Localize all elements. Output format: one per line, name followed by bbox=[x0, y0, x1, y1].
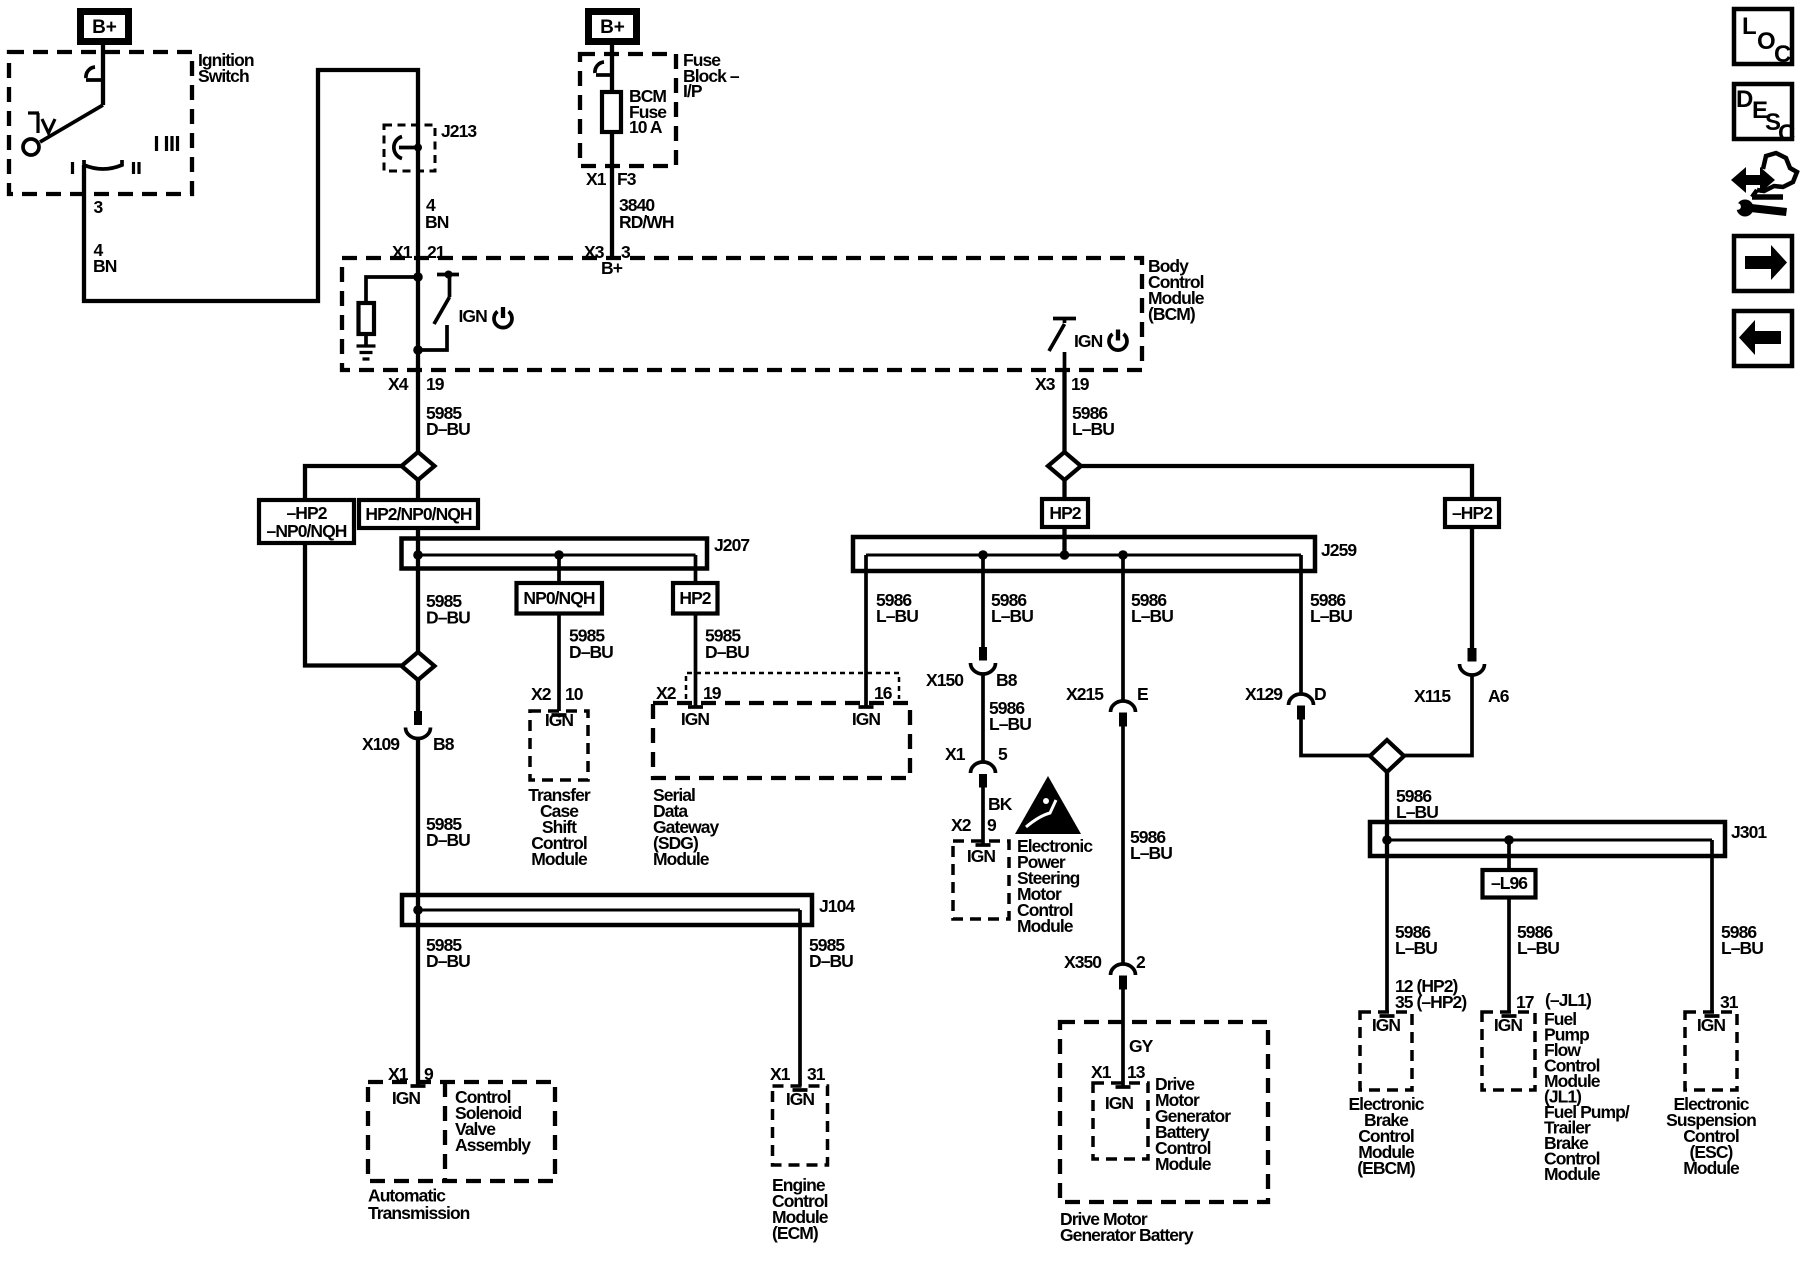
svg-text:IGN: IGN bbox=[545, 710, 574, 730]
option box HP2 (J259) bbox=[1042, 499, 1088, 527]
wire splice branch to -HP2 option box bbox=[305, 466, 402, 500]
connector X109 pin bbox=[414, 711, 422, 725]
wire HP2 box to SDG module bbox=[694, 614, 698, 707]
svg-text:IGN: IGN bbox=[459, 306, 488, 326]
BCM IGN switch (left) top contact bbox=[437, 273, 459, 277]
svg-text:I/P: I/P bbox=[683, 81, 703, 101]
svg-text:3: 3 bbox=[94, 197, 104, 217]
svg-text:IGN: IGN bbox=[852, 709, 881, 729]
svg-text:31: 31 bbox=[1720, 992, 1739, 1012]
svg-text:X2: X2 bbox=[656, 683, 677, 703]
Body Control Module dashed box bbox=[342, 258, 1142, 370]
forward arrow icon box bbox=[1734, 236, 1792, 291]
ground in BCM bbox=[357, 346, 376, 359]
svg-text:Transmission: Transmission bbox=[368, 1203, 470, 1223]
ESC pin terminator bbox=[1705, 1014, 1720, 1018]
svg-text:5: 5 bbox=[998, 744, 1008, 764]
svg-text:J301: J301 bbox=[1731, 822, 1767, 842]
BCM internal wire X1-21 to X4-19 bbox=[416, 258, 420, 370]
svg-text:Generator Battery: Generator Battery bbox=[1060, 1225, 1194, 1245]
wire through J213 to BCM X1-21 bbox=[416, 125, 420, 258]
key position marks I and II at arc bbox=[73, 162, 140, 174]
svg-text:(ECM): (ECM) bbox=[772, 1223, 818, 1243]
back arrow icon box bbox=[1734, 311, 1792, 366]
BCM IGN switch (left) lower contact bbox=[418, 325, 447, 350]
svg-text:L–BU: L–BU bbox=[876, 606, 918, 626]
in-line connector J213 dashed box bbox=[384, 125, 435, 171]
svg-text:Module: Module bbox=[1155, 1154, 1212, 1174]
splice diamond S2 bbox=[402, 652, 435, 680]
wire X129 to splice S4 bbox=[1301, 720, 1370, 756]
svg-text:A6: A6 bbox=[1488, 686, 1510, 706]
power symbol (BCM right) bbox=[1109, 334, 1127, 350]
splice diamond S1 bbox=[402, 452, 435, 480]
svg-text:HP2/NP0/NQH: HP2/NP0/NQH bbox=[365, 504, 472, 524]
svg-text:B+: B+ bbox=[92, 17, 117, 38]
SDG pin 19 terminator bbox=[688, 705, 703, 709]
connector X115 cup bbox=[1460, 664, 1485, 675]
ignition switch blade bbox=[40, 105, 103, 142]
svg-text:IGN: IGN bbox=[1372, 1015, 1401, 1035]
svg-text:L–BU: L–BU bbox=[991, 606, 1033, 626]
svg-text:X109: X109 bbox=[362, 734, 400, 754]
svg-text:BK: BK bbox=[988, 794, 1013, 814]
EPS IGN dashed box bbox=[953, 841, 1009, 919]
wire X115 to splice S4 bbox=[1404, 676, 1472, 756]
wire X1-5 to EPS module bbox=[981, 788, 985, 846]
svg-text:D–BU: D–BU bbox=[569, 642, 613, 662]
svg-text:B+: B+ bbox=[600, 17, 625, 38]
ECM IGN dashed box bbox=[773, 1086, 828, 1165]
option box -L96 bbox=[1483, 870, 1536, 898]
connector X1-5 pin bbox=[979, 774, 987, 788]
wire J207 to NP0/NQH box bbox=[557, 569, 561, 584]
wire X350 to DMGB module bbox=[1121, 990, 1125, 1088]
wire -HP2 to X115 bbox=[1470, 527, 1474, 648]
option box -HP2 -NP0/NQH bbox=[259, 500, 354, 543]
connector X129 cap bbox=[1289, 694, 1314, 705]
svg-text:IGN: IGN bbox=[1697, 1015, 1726, 1035]
svg-text:B8: B8 bbox=[433, 734, 455, 754]
svg-text:X1: X1 bbox=[770, 1064, 791, 1084]
ignition switch pivot bbox=[23, 139, 39, 155]
wire S2 to X109 bbox=[416, 680, 420, 711]
wire NP0/NQH to transfer case module bbox=[557, 614, 561, 712]
svg-text:L–BU: L–BU bbox=[989, 714, 1031, 734]
wire BCM X3 to splice S3 bbox=[1062, 370, 1066, 452]
svg-text:(BCM): (BCM) bbox=[1148, 304, 1195, 324]
connector X215 cap bbox=[1111, 701, 1136, 712]
svg-text:J207: J207 bbox=[714, 535, 749, 555]
direction/repair icon bbox=[1731, 167, 1775, 193]
connector X150 cup bbox=[971, 663, 996, 674]
wire BCM X4 to splice bbox=[416, 370, 420, 452]
SDG X2 connector fine dashed boundary bbox=[686, 673, 899, 699]
wire B+ into fuse bbox=[610, 45, 614, 92]
svg-text:35 (–HP2): 35 (–HP2) bbox=[1395, 992, 1466, 1012]
svg-text:L–BU: L–BU bbox=[1721, 938, 1763, 958]
connector X215 pin bbox=[1119, 713, 1127, 727]
svg-text:L–BU: L–BU bbox=[1130, 843, 1172, 863]
connector X115 pin bbox=[1468, 648, 1477, 662]
svg-text:B8: B8 bbox=[996, 670, 1018, 690]
svg-text:D–BU: D–BU bbox=[809, 951, 853, 971]
svg-text:L–BU: L–BU bbox=[1395, 938, 1437, 958]
DMGB pin terminator bbox=[1116, 1085, 1131, 1089]
wire J301 to EBCM bbox=[1385, 856, 1389, 1012]
connector X1-5 cap bbox=[971, 762, 996, 773]
svg-text:L–BU: L–BU bbox=[1131, 606, 1173, 626]
svg-text:Module: Module bbox=[1544, 1164, 1601, 1184]
svg-text:3: 3 bbox=[621, 242, 631, 262]
transmission pin terminator bbox=[411, 1084, 426, 1088]
svg-text:16: 16 bbox=[874, 683, 893, 703]
svg-text:X3: X3 bbox=[1035, 374, 1056, 394]
svg-text:D: D bbox=[1736, 86, 1753, 113]
svg-text:(–JL1): (–JL1) bbox=[1545, 990, 1591, 1010]
J104 internal bus bbox=[418, 909, 801, 912]
drive motor generator battery dashed box bbox=[1060, 1022, 1268, 1202]
option box -HP2 bbox=[1445, 499, 1499, 527]
svg-text:X115: X115 bbox=[1414, 686, 1451, 706]
svg-text:IGN: IGN bbox=[1105, 1093, 1134, 1113]
svg-text:X1: X1 bbox=[1091, 1062, 1112, 1082]
svg-text:9: 9 bbox=[987, 815, 997, 835]
wire -HP2 option to splice S2 bbox=[305, 543, 402, 666]
svg-text:HP2: HP2 bbox=[1049, 503, 1081, 523]
key position IV mark bbox=[28, 113, 39, 133]
svg-text:F3: F3 bbox=[617, 169, 637, 189]
svg-text:Module: Module bbox=[1683, 1158, 1740, 1178]
wire S4 to J301 bbox=[1385, 772, 1389, 822]
svg-text:BN: BN bbox=[93, 256, 117, 276]
wire X109 to J104 bbox=[416, 738, 420, 895]
svg-text:HP2: HP2 bbox=[679, 588, 711, 608]
fuel pump IGN dashed box bbox=[1482, 1012, 1535, 1090]
option box HP2 bbox=[673, 583, 718, 614]
svg-text:19: 19 bbox=[1071, 374, 1090, 394]
svg-text:RD/WH: RD/WH bbox=[619, 212, 674, 232]
svg-text:L–BU: L–BU bbox=[1517, 938, 1559, 958]
connector X350 pin bbox=[1119, 976, 1127, 990]
splice diamond S3 bbox=[1048, 452, 1081, 480]
wire option box to J207 bbox=[416, 528, 420, 539]
svg-text:X350: X350 bbox=[1064, 952, 1102, 972]
svg-text:L–BU: L–BU bbox=[1072, 419, 1114, 439]
EBCM pin terminator bbox=[1380, 1014, 1395, 1018]
svg-text:–NP0/NQH: –NP0/NQH bbox=[267, 521, 347, 541]
svg-text:(EBCM): (EBCM) bbox=[1357, 1158, 1415, 1178]
DMGB control module IGN dashed box bbox=[1093, 1083, 1148, 1159]
svg-text:J213: J213 bbox=[441, 121, 477, 141]
transfer case pin terminator bbox=[552, 713, 567, 717]
option box NP0/NQH bbox=[517, 583, 603, 614]
splice pack J104 bar bbox=[402, 895, 812, 925]
connector X350 cap bbox=[1111, 964, 1136, 975]
svg-text:Assembly: Assembly bbox=[455, 1135, 531, 1155]
svg-text:J259: J259 bbox=[1321, 540, 1357, 560]
wire HP2 box to J259 bbox=[1062, 527, 1066, 537]
svg-text:–L96: –L96 bbox=[1491, 873, 1528, 893]
svg-text:Module: Module bbox=[1017, 916, 1074, 936]
connector X150 pin bbox=[979, 647, 987, 661]
svg-text:Module: Module bbox=[653, 849, 710, 869]
svg-text:GY: GY bbox=[1129, 1036, 1154, 1056]
option box HP2/NP0/NQH bbox=[359, 500, 478, 528]
connector X109 cup bbox=[406, 728, 431, 739]
ESC IGN dashed box bbox=[1685, 1012, 1737, 1090]
svg-text:E: E bbox=[1137, 684, 1148, 704]
J207 internal bus bbox=[418, 554, 696, 557]
wire J259 to X129 bbox=[1299, 571, 1303, 694]
svg-text:–HP2: –HP2 bbox=[287, 503, 328, 523]
svg-text:X2: X2 bbox=[951, 815, 972, 835]
transfer case IGN dashed box bbox=[530, 711, 588, 780]
svg-text:O: O bbox=[1757, 28, 1776, 55]
wire X215 to X350 bbox=[1121, 727, 1125, 964]
svg-text:17: 17 bbox=[1516, 992, 1534, 1012]
wire J301 to ESC module bbox=[1710, 856, 1714, 1012]
wire J259 to X215 bbox=[1121, 571, 1125, 701]
junction at J213 bbox=[414, 144, 422, 152]
svg-text:10: 10 bbox=[565, 684, 584, 704]
wire J104 to automatic transmission bbox=[416, 925, 420, 1086]
J301 internal bus bbox=[1387, 839, 1712, 842]
splice pack J207 bar bbox=[402, 539, 708, 569]
svg-text:IGN: IGN bbox=[681, 709, 710, 729]
svg-text:L: L bbox=[1742, 13, 1757, 40]
svg-text:Module: Module bbox=[531, 849, 588, 869]
BCM IGN switch (right) lower contact bbox=[1063, 352, 1067, 370]
svg-text:D–BU: D–BU bbox=[426, 608, 470, 628]
svg-text:Switch: Switch bbox=[198, 66, 249, 86]
svg-text:IGN: IGN bbox=[786, 1089, 815, 1109]
svg-text:–HP2: –HP2 bbox=[1452, 503, 1493, 523]
svg-text:L–BU: L–BU bbox=[1396, 802, 1438, 822]
EPS pin terminator bbox=[976, 843, 991, 847]
splice pack J259 bar bbox=[853, 537, 1315, 571]
SDG module dashed box bbox=[653, 703, 910, 778]
svg-text:J104: J104 bbox=[819, 896, 855, 916]
fuel pump pin terminator bbox=[1502, 1014, 1517, 1018]
wire J259 to X150 bbox=[981, 571, 985, 647]
ignition switch module dashed box bbox=[9, 52, 192, 194]
svg-text:D–BU: D–BU bbox=[426, 419, 470, 439]
power symbol (BCM left) bbox=[494, 312, 512, 328]
EPS warning triangle bbox=[1015, 776, 1081, 834]
svg-text:X2: X2 bbox=[531, 684, 552, 704]
svg-text:X1: X1 bbox=[586, 169, 607, 189]
wire J207 to splice S2 bbox=[416, 569, 420, 653]
wire resistor to ground bbox=[364, 334, 368, 346]
power feed B+ terminal box (fuse block) bbox=[585, 8, 640, 45]
wire B+ to ignition switch contact bbox=[101, 45, 105, 105]
automatic transmission dashed box bbox=[368, 1082, 555, 1181]
SDG pin 16 terminator bbox=[859, 705, 874, 709]
svg-text:NP0/NQH: NP0/NQH bbox=[523, 588, 594, 608]
svg-text:X1: X1 bbox=[945, 744, 966, 764]
ECM pin terminator bbox=[793, 1088, 808, 1092]
svg-text:X129: X129 bbox=[1245, 684, 1283, 704]
svg-text:X4: X4 bbox=[388, 374, 409, 394]
svg-text:IGN: IGN bbox=[967, 846, 996, 866]
svg-text:D–BU: D–BU bbox=[426, 830, 470, 850]
svg-text:19: 19 bbox=[703, 683, 722, 703]
wire S3 to HP2 option box bbox=[1062, 480, 1066, 499]
resistor in BCM bbox=[359, 303, 375, 334]
svg-text:13: 13 bbox=[1127, 1062, 1146, 1082]
svg-text:C: C bbox=[1774, 41, 1791, 68]
fuse block dashed box bbox=[580, 54, 676, 166]
svg-text:IGN: IGN bbox=[1494, 1015, 1523, 1035]
key position marks I III bbox=[157, 136, 178, 151]
wire fuse to BCM X3-3 bbox=[610, 132, 614, 258]
junction in BCM bbox=[413, 272, 423, 282]
LOC icon box bbox=[1734, 9, 1792, 64]
svg-text:D: D bbox=[1314, 684, 1326, 704]
svg-text:D–BU: D–BU bbox=[426, 951, 470, 971]
svg-text:19: 19 bbox=[426, 374, 445, 394]
EBCM IGN dashed box bbox=[1360, 1012, 1412, 1090]
svg-text:B+: B+ bbox=[601, 258, 623, 278]
svg-text:IGN: IGN bbox=[392, 1088, 421, 1108]
power feed B+ terminal box (left) bbox=[77, 8, 132, 45]
wire splice S1 to option box HP2/NP0/NQH bbox=[416, 480, 420, 500]
wire -L96 to fuel pump module bbox=[1507, 898, 1511, 1013]
wire S3 to -HP2 option box bbox=[1081, 466, 1472, 499]
BCM IGN switch (left) blade bbox=[434, 297, 450, 324]
ignition switch contact arc I-II bbox=[84, 160, 122, 169]
svg-text:C: C bbox=[1778, 120, 1795, 147]
splice pack J301 bar bbox=[1370, 822, 1725, 856]
DESC icon box bbox=[1734, 84, 1792, 139]
svg-text:10 A: 10 A bbox=[629, 117, 663, 137]
wire J104 to ECM bbox=[798, 925, 802, 1086]
fuse F3 BCM Fuse 10A bbox=[602, 92, 621, 132]
svg-text:IGN: IGN bbox=[1074, 331, 1103, 351]
BCM IGN switch (right) top contact bbox=[1053, 317, 1076, 321]
svg-text:BN: BN bbox=[425, 212, 449, 232]
svg-text:D–BU: D–BU bbox=[705, 642, 749, 662]
BCM internal branch to resistor bbox=[366, 277, 418, 303]
ignition switch B+ terminal tick and hook bbox=[86, 78, 103, 82]
J259 internal bus bbox=[866, 554, 1301, 557]
wire J207 to HP2 box bbox=[694, 569, 698, 584]
BCM IGN switch (right) blade bbox=[1049, 324, 1065, 351]
connector X129 pin bbox=[1297, 706, 1305, 720]
wire J259 to SDG pin 16 bbox=[864, 571, 868, 706]
svg-text:31: 31 bbox=[807, 1064, 826, 1084]
J213 terminal tick and hook bbox=[399, 146, 416, 150]
pin 3 wire from ignition switch routed to J213 bbox=[84, 70, 418, 301]
fuse block input terminal hook bbox=[596, 73, 611, 77]
wire X150 to X1-5 bbox=[981, 675, 985, 763]
svg-text:X215: X215 bbox=[1066, 684, 1104, 704]
svg-text:L–BU: L–BU bbox=[1310, 606, 1352, 626]
splice diamond S4 bbox=[1370, 740, 1404, 772]
svg-text:X150: X150 bbox=[926, 670, 964, 690]
svg-text:2: 2 bbox=[1136, 952, 1146, 972]
wire J301 to -L96 box bbox=[1507, 856, 1511, 870]
